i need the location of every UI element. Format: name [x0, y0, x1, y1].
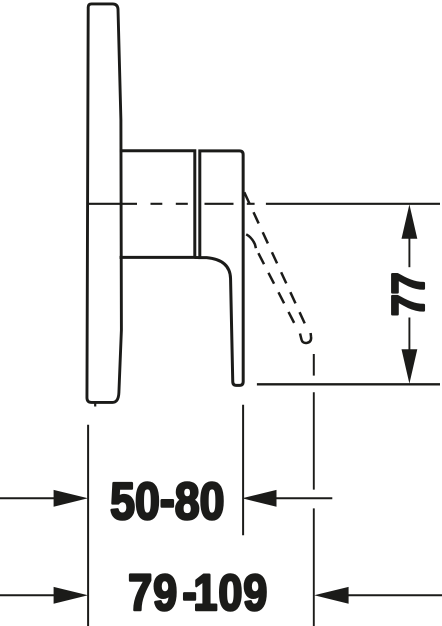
arrowhead down (77) [402, 349, 418, 383]
handle escutcheon and solid lever [200, 151, 243, 386]
lower extent line of dimension 77 [257, 383, 440, 385]
extension line at plate left edge [87, 425, 89, 626]
arrowhead right (79-109 left) [54, 587, 88, 604]
arrowhead right (50-80 left) [54, 490, 88, 507]
valve body (cartridge housing) [120, 151, 195, 258]
tick below plate bottom [94, 404, 96, 407]
extension line at open lever tip [313, 392, 315, 626]
wall escutcheon plate [87, 4, 121, 403]
svg-text:79-109: 79-109 [128, 564, 268, 622]
dashed projection below open lever tip [313, 354, 315, 376]
arrowhead left (79-109 right) [314, 587, 348, 604]
dashed lever in open position [244, 192, 311, 343]
extension line at lever [242, 405, 244, 536]
dimension 79-109 leader lines [0, 594, 442, 596]
junction bridge at body/handle bottom [195, 256, 201, 259]
svg-text:77: 77 [383, 272, 433, 316]
centerline through valve axis [88, 203, 440, 205]
arrowhead up (77) [402, 204, 418, 238]
dimension 50-80 leader lines [0, 497, 332, 499]
svg-text:50-80: 50-80 [110, 471, 224, 531]
arrowhead left (50-80 right) [242, 490, 276, 507]
dimension 77 vertical line [408, 236, 410, 351]
